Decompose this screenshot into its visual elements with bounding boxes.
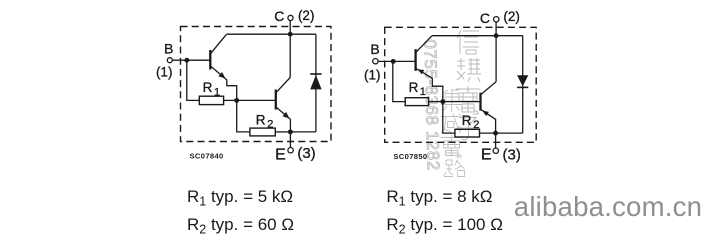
wire C down to Q2 collector — [289, 20, 291, 77]
watermark alibaba.com.cn — [514, 191, 702, 222]
svg-text:R2 typ. = 100 Ω: R2 typ. = 100 Ω — [386, 215, 503, 237]
terminal E (3) left — [275, 132, 316, 164]
wire node down to R2 right — [443, 102, 455, 134]
watermark CJK char cheng — [441, 114, 462, 134]
svg-text:SC07850: SC07850 — [393, 152, 427, 161]
node B junction — [184, 58, 189, 63]
wire R1 right lead right — [429, 101, 443, 103]
wire B node down to R1 — [187, 60, 200, 100]
node C junction right — [494, 33, 499, 38]
resistor R2 right — [455, 113, 480, 137]
diode D1 right (reversed) — [517, 36, 528, 133]
value label R1 typ = 5 kOhm — [187, 187, 293, 209]
svg-text:E: E — [275, 146, 286, 163]
watermark phone number 0755-8368 1282 — [420, 39, 442, 171]
terminal E (3) right — [481, 133, 521, 164]
terminal B (1) right — [364, 41, 381, 82]
resistor R1 right — [405, 80, 428, 105]
wire top rail left — [226, 33, 316, 35]
watermark CJK char qi — [457, 58, 481, 82]
terminal B (1) left — [156, 41, 173, 80]
node Q2 base junction right — [440, 99, 445, 104]
dashed box right — [385, 27, 537, 142]
wire bottom rail to diode right — [496, 132, 523, 134]
svg-text:C: C — [480, 10, 490, 26]
transistor Q2 left (NPN) — [276, 78, 291, 132]
transistor Q1 left (NPN) — [210, 34, 236, 100]
svg-text:(1): (1) — [156, 65, 173, 80]
watermark CJK char dian1 — [456, 86, 480, 114]
node E junction right — [493, 131, 498, 136]
svg-text:E: E — [481, 147, 492, 164]
node C junction left — [288, 32, 293, 37]
wire R1 right to node — [224, 99, 237, 101]
svg-text:2: 2 — [473, 119, 479, 131]
wire B to Q1 base right — [378, 60, 415, 62]
wire node to Q2 base — [237, 99, 276, 101]
wire B node down to R1 right — [393, 61, 405, 101]
value label R2 typ = 100 Ohm — [386, 215, 503, 237]
svg-text:(3): (3) — [297, 145, 315, 162]
svg-text:(1): (1) — [364, 67, 381, 82]
terminal C (2) left — [274, 8, 314, 24]
node Q2 base junction — [234, 98, 239, 103]
watermark CJK char dian2 — [441, 135, 464, 157]
resistor R2 left — [250, 113, 275, 136]
svg-text:1: 1 — [214, 86, 220, 98]
wire top rail right — [432, 35, 523, 37]
watermark CJK char xin — [457, 30, 479, 54]
svg-text:(2): (2) — [298, 8, 315, 23]
wire R2 right to E node — [275, 131, 290, 133]
watermark CJK char zi — [456, 118, 480, 141]
wire bottom rail to diode — [290, 131, 316, 133]
svg-text:R: R — [462, 113, 472, 128]
dashed box left — [181, 27, 332, 142]
watermark CJK char lu — [444, 160, 465, 177]
transistor Q1 right (PNP) — [416, 36, 443, 102]
svg-text:B: B — [370, 41, 379, 57]
wire C down to Q2 collector right — [495, 22, 497, 82]
resistor R1 left — [199, 80, 223, 104]
svg-text:B: B — [164, 41, 173, 57]
watermark CJK char ji — [441, 89, 462, 112]
node E junction left — [288, 129, 293, 134]
wire R2 right to E node right — [480, 132, 496, 134]
svg-text:1: 1 — [420, 86, 426, 98]
svg-text:R: R — [203, 80, 213, 95]
wire B to Q1 base — [172, 59, 210, 61]
label SC07840 — [190, 152, 224, 161]
svg-text:R2 typ. = 60 Ω: R2 typ. = 60 Ω — [187, 215, 294, 237]
svg-text:R1 typ. = 5 kΩ: R1 typ. = 5 kΩ — [187, 187, 293, 209]
node B junction right — [391, 59, 396, 64]
value label R2 typ = 60 Ohm — [187, 215, 294, 237]
value label R1 typ = 8 kOhm — [386, 187, 492, 209]
svg-text:(3): (3) — [503, 146, 521, 163]
transistor Q2 right (PNP) — [481, 82, 497, 133]
svg-text:2: 2 — [267, 118, 273, 130]
svg-text:SC07840: SC07840 — [190, 152, 224, 161]
label SC07850 — [393, 152, 427, 161]
terminal C (2) right — [480, 9, 520, 26]
svg-text:R: R — [256, 113, 266, 128]
wire node to Q2 base right — [443, 101, 480, 103]
svg-text:alibaba.com.cn: alibaba.com.cn — [514, 191, 702, 222]
svg-text:R: R — [409, 80, 419, 95]
diode D1 left — [310, 34, 321, 132]
svg-text:R1 typ. = 8 kΩ: R1 typ. = 8 kΩ — [386, 187, 492, 209]
svg-text:C: C — [274, 8, 284, 24]
wire node down to R2 — [237, 100, 250, 131]
svg-text:(2): (2) — [503, 9, 520, 24]
